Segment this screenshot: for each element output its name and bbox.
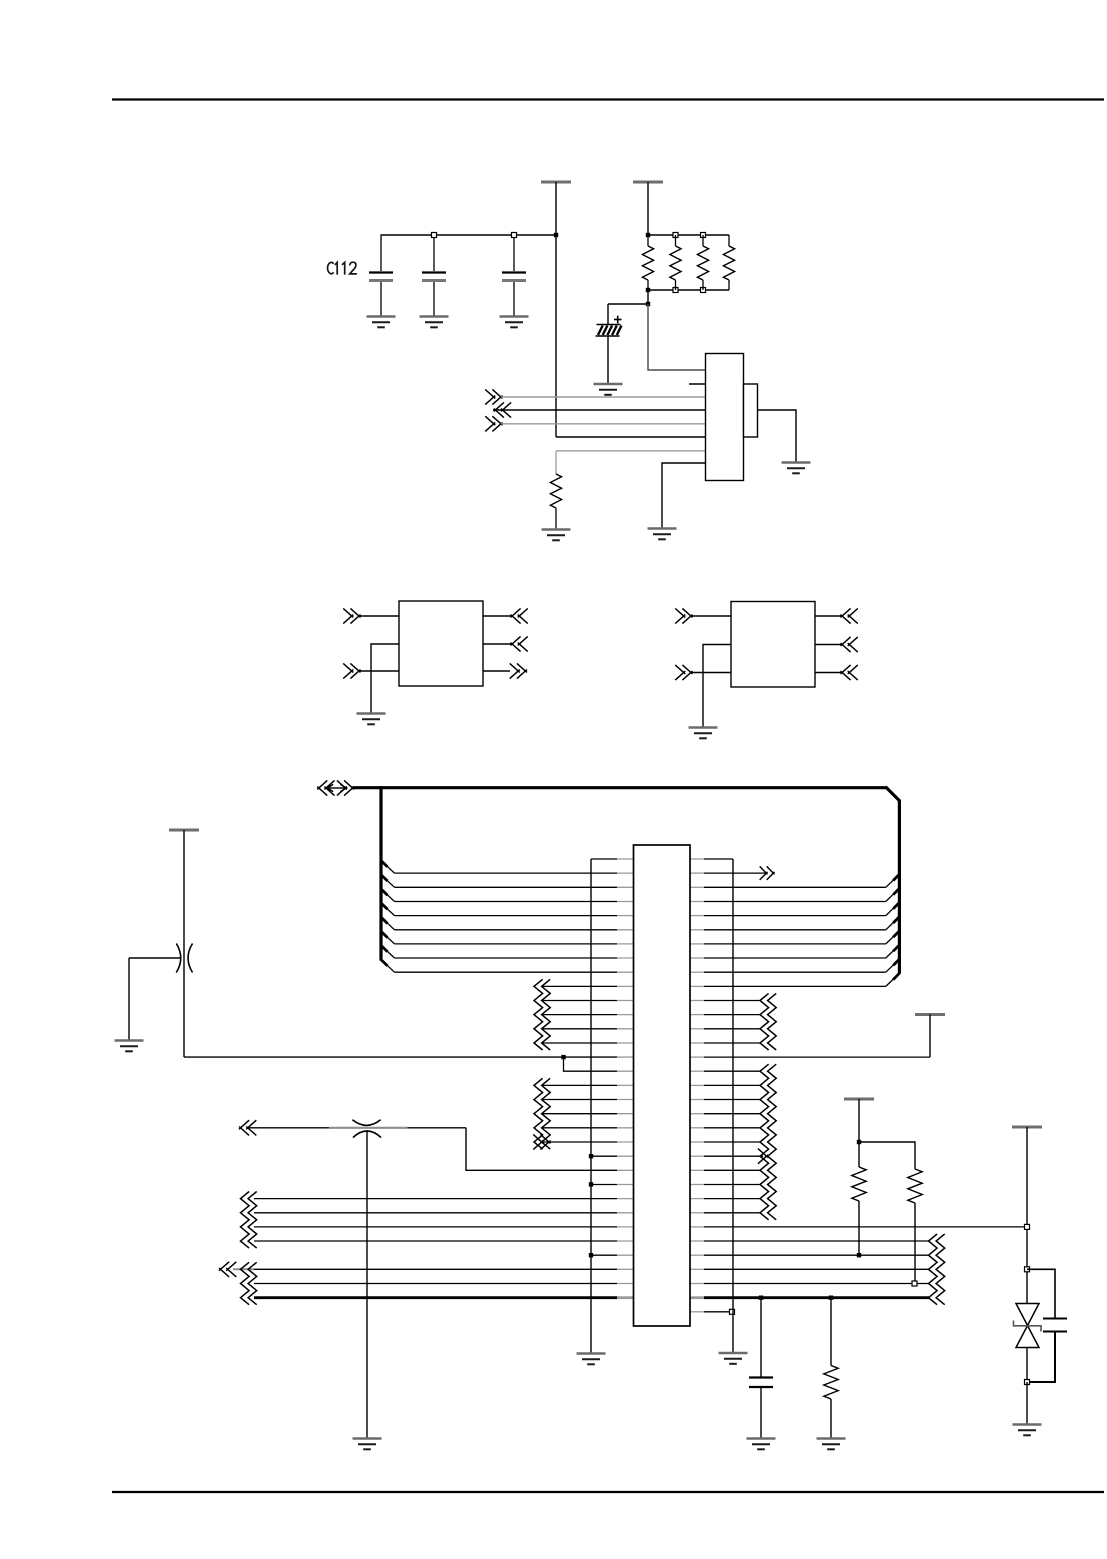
bus trunk right vertical bbox=[898, 800, 901, 974]
ground bbox=[115, 1041, 144, 1052]
bus merge diagonal R4 bbox=[886, 917, 900, 930]
resistor R1 bbox=[642, 235, 653, 290]
port chevron B1 bbox=[219, 1262, 236, 1277]
wire row21 right bbox=[690, 1155, 763, 1157]
wire bus bit 2 right bbox=[690, 886, 886, 888]
bus fan diagonal L1 bbox=[381, 861, 395, 874]
port chevron in 2 bbox=[485, 416, 502, 431]
wire row14 long left bbox=[184, 1056, 634, 1058]
spark gap G1 bbox=[176, 944, 192, 973]
power rail VCC2 bbox=[633, 181, 663, 184]
wire bus bit 3 right bbox=[690, 901, 886, 903]
spark gap G2 bbox=[352, 1120, 381, 1138]
wire row23 right bbox=[690, 1184, 761, 1186]
wire U3 out1 bbox=[815, 615, 842, 617]
ground bbox=[542, 530, 571, 541]
wire signal R1-4 right bbox=[690, 1042, 761, 1044]
ground bbox=[357, 714, 386, 725]
op-amp U1 bbox=[706, 354, 744, 481]
net stub marks A bbox=[241, 1192, 257, 1249]
port arrow L3-5 bbox=[533, 1134, 550, 1149]
wire signal A3 left bbox=[254, 1226, 634, 1228]
node row32 junction bbox=[730, 1309, 735, 1314]
net stub marks L3 bbox=[534, 1078, 550, 1149]
wire TVS bottom bbox=[1026, 1348, 1028, 1383]
net stub marks R2 bbox=[760, 1064, 776, 1220]
wire signal R1-3 right bbox=[690, 1028, 761, 1030]
wire tap left bbox=[608, 303, 648, 305]
wire signal L3-5 left bbox=[543, 1141, 634, 1143]
power rail left bbox=[169, 829, 199, 832]
wire signal L2-1 left bbox=[543, 985, 634, 987]
resistor R4 bbox=[723, 235, 734, 290]
wire row31 right thick bbox=[690, 1296, 930, 1299]
net stub marks B bbox=[241, 1262, 257, 1304]
node row26 to rail junction bbox=[1025, 1224, 1030, 1229]
power rail VCC4 bbox=[1012, 1126, 1042, 1129]
resistor R3 bbox=[697, 235, 708, 290]
ground bbox=[719, 1353, 748, 1364]
capacitor C2 bbox=[422, 237, 446, 316]
port chevron U2 out3 bbox=[510, 663, 527, 678]
wire signal A1 left bbox=[254, 1198, 634, 1200]
bus fan diagonal L3 bbox=[381, 889, 395, 902]
port chevron U3 out2 bbox=[841, 637, 858, 652]
port chevron U2 in2 bbox=[343, 663, 360, 678]
ground bbox=[747, 1439, 776, 1450]
wire U1 right to ground bbox=[758, 410, 797, 462]
ground bbox=[1013, 1425, 1042, 1436]
wire resistor net to U1 bbox=[648, 304, 705, 370]
wire row28 left bbox=[591, 1254, 634, 1256]
wire VCC4 down bbox=[1026, 1127, 1028, 1303]
wire right rail down bbox=[929, 1015, 931, 1058]
bus merge diagonal R2 bbox=[886, 888, 900, 901]
wire U2 in1 bbox=[359, 615, 399, 617]
bus trunk corner chamfer bbox=[886, 787, 901, 801]
wire U3 gnd pin bbox=[703, 645, 731, 728]
wire bus bit 9 right bbox=[690, 985, 886, 987]
ground bbox=[367, 317, 396, 328]
ground bbox=[817, 1439, 846, 1450]
wire bus bit 2 left bbox=[395, 886, 634, 888]
ground bbox=[689, 728, 718, 739]
microcontroller U4 bbox=[634, 845, 691, 1326]
wire R6 bottom bbox=[858, 1201, 860, 1255]
resistor R6 bbox=[852, 1167, 866, 1201]
wire U3 out3 bbox=[815, 672, 842, 674]
port chevron in 1 bbox=[485, 389, 502, 404]
ground bbox=[594, 384, 623, 395]
bus fan diagonal L4 bbox=[381, 903, 395, 916]
bus trunk top bbox=[353, 786, 887, 789]
node cap branch junction bbox=[1025, 1267, 1030, 1272]
wire signal L2-5 left bbox=[543, 1042, 634, 1044]
node R6 top junction bbox=[857, 1140, 861, 1144]
wire bus bit 8 right bbox=[690, 971, 886, 973]
wire row28 right bbox=[690, 1254, 930, 1256]
wire cap branch bbox=[1027, 1269, 1055, 1318]
wire R7 bottom bbox=[914, 1203, 916, 1284]
wire signal R1-2 right bbox=[690, 1014, 761, 1016]
node rail junction F bbox=[701, 288, 706, 293]
wire resistor bottom rail bbox=[648, 289, 729, 291]
wire bus bit 4 left bbox=[395, 915, 634, 917]
wire gap2 electrode down bbox=[366, 1131, 368, 1438]
port chevron U3 in1 bbox=[675, 608, 692, 623]
transceiver U3 bbox=[731, 602, 815, 688]
wire signal L3-2 left bbox=[543, 1099, 634, 1101]
wire C6 bottom bbox=[760, 1387, 762, 1438]
wire serial elbow bbox=[466, 1128, 634, 1171]
resistor R7 bbox=[908, 1169, 922, 1203]
port chevron U2 in1 bbox=[343, 608, 360, 623]
wire row15 right bbox=[690, 1070, 761, 1072]
wire rail to node bbox=[647, 290, 649, 304]
wire signal L3-4 left bbox=[543, 1127, 634, 1129]
node row28 junction bbox=[589, 1253, 593, 1257]
node row14 junction bbox=[561, 1055, 565, 1059]
wire bus bit 6 right bbox=[690, 943, 886, 945]
wire C6 top bbox=[760, 1298, 762, 1377]
port bus bidirectional chevron bbox=[317, 780, 354, 795]
wire bus bit 7 right bbox=[690, 957, 886, 959]
wire U2 gnd pin bbox=[371, 644, 399, 713]
node R6 bottom junction bbox=[857, 1253, 861, 1257]
bus fan diagonal L6 bbox=[381, 931, 395, 944]
wire signal A2 left bbox=[254, 1212, 634, 1214]
wire cap branch bottom bbox=[1027, 1332, 1055, 1382]
port chevron serial in bbox=[239, 1120, 256, 1135]
wire signal B3 left thick bbox=[254, 1296, 634, 1299]
port chevron U2 out2 bbox=[511, 636, 528, 651]
bottom border rule bbox=[112, 1491, 1104, 1493]
wire row15 elbow bbox=[564, 1057, 634, 1071]
node cap bus junction 2 bbox=[512, 233, 517, 238]
node rail junction B bbox=[673, 233, 678, 238]
ground bbox=[648, 529, 677, 540]
resistor R5 bbox=[550, 474, 561, 508]
capacitor C6 bbox=[749, 1378, 773, 1388]
wire U2 out3 bbox=[483, 670, 510, 672]
wire electrolytic to ground bbox=[607, 336, 609, 384]
wire row22 right bbox=[690, 1169, 761, 1171]
label plus sign bbox=[614, 316, 622, 324]
wire signal B2 left bbox=[254, 1283, 634, 1285]
bus merge diagonal R3 bbox=[886, 902, 900, 915]
wire row24 right bbox=[690, 1198, 761, 1200]
ground bbox=[420, 317, 449, 328]
node R7 bottom junction bbox=[912, 1281, 917, 1286]
wire bus bit 6 left bbox=[395, 943, 634, 945]
wire electrode down bbox=[128, 958, 130, 1040]
wire tap down bbox=[607, 304, 609, 324]
diode D1 TVS bbox=[1014, 1304, 1042, 1348]
wire bus bit 7 left bbox=[395, 957, 634, 959]
wire row27 right bbox=[690, 1240, 930, 1242]
port chevron U3 out3 bbox=[841, 665, 858, 680]
bus trunk left vertical bbox=[379, 786, 382, 960]
wire signal L3-3 left bbox=[543, 1113, 634, 1115]
power rail VCC1 bbox=[541, 181, 571, 184]
wire row25 right bbox=[690, 1212, 761, 1214]
ground bbox=[577, 1354, 606, 1365]
bus merge diagonal R5 bbox=[886, 931, 900, 944]
net stub marks R3 bbox=[929, 1234, 945, 1305]
bus merge diagonal R8 bbox=[886, 973, 900, 986]
resistor R2 bbox=[670, 235, 681, 290]
port chevron U3 out1 bbox=[841, 608, 858, 623]
wire signal A4 left bbox=[254, 1240, 634, 1242]
wire bus bit 1 left bbox=[395, 872, 634, 874]
wire R5 to ground bbox=[555, 508, 557, 529]
capacitor C3 bbox=[502, 237, 526, 316]
power rail right mid bbox=[915, 1013, 945, 1016]
wire U3 in2 bbox=[691, 672, 731, 674]
wire left side vertical bbox=[590, 859, 592, 1353]
top border rule bbox=[112, 98, 1104, 100]
wire signal L2-3 left bbox=[543, 1014, 634, 1016]
wire cap bus bbox=[381, 234, 557, 236]
node row21 junction bbox=[589, 1154, 593, 1158]
wire VCC1 down bbox=[555, 182, 557, 437]
port chevron out 1 bbox=[494, 402, 511, 417]
wire row21 left bbox=[591, 1155, 634, 1157]
ground bbox=[500, 317, 529, 328]
ground bbox=[353, 1439, 382, 1450]
wire row26 right bbox=[690, 1226, 1027, 1228]
wire U3 out2 bbox=[815, 644, 842, 646]
node rail junction C bbox=[701, 233, 706, 238]
power rail VCC3 bbox=[844, 1098, 874, 1101]
net stub marks R1 bbox=[760, 993, 776, 1050]
node electrolytic tap bbox=[646, 302, 650, 306]
wire row14 right bbox=[690, 1056, 930, 1058]
wire VCC2 down bbox=[647, 182, 649, 235]
port chevron U2 out1 bbox=[511, 608, 528, 623]
node pin stub bbox=[689, 383, 706, 385]
wire gray bus 1 bbox=[501, 396, 705, 398]
wire bus bit 4 right bbox=[690, 915, 886, 917]
wire signal R2-1 right bbox=[690, 1084, 761, 1086]
capacitor C5 bbox=[1043, 1319, 1067, 1332]
wire VCC3 down bbox=[858, 1099, 860, 1167]
op-amp U1 port box bbox=[744, 384, 758, 437]
wire signal R2-5 right bbox=[690, 1141, 761, 1143]
wire R8 top bbox=[830, 1298, 832, 1366]
wire U2 out1 bbox=[483, 615, 512, 617]
bus fan diagonal L8 bbox=[381, 960, 395, 973]
wire gray bus 2 bbox=[501, 423, 705, 425]
label C112 bbox=[328, 262, 357, 274]
wire serial line bbox=[247, 1127, 466, 1129]
wire U1 out bbox=[493, 409, 705, 411]
port chevron U3 in2 bbox=[675, 665, 692, 680]
wire row0 right bbox=[690, 858, 733, 860]
wire row32 right bbox=[690, 1311, 732, 1313]
wire U2 out2 bbox=[483, 643, 512, 645]
bus merge diagonal R7 bbox=[886, 959, 900, 972]
node rail junction A bbox=[646, 233, 650, 237]
ground bbox=[782, 463, 811, 474]
wire signal R2-3 right bbox=[690, 1113, 761, 1115]
capacitor C112 bbox=[369, 235, 393, 316]
wire bus3 down bbox=[555, 451, 557, 474]
wire row29 right bbox=[690, 1268, 930, 1270]
port chevron bus bit1 out bbox=[760, 866, 775, 880]
node cap bus junction 1 bbox=[432, 233, 437, 238]
wire B1 arrow line bbox=[233, 1268, 254, 1270]
wire U2 in2 bbox=[359, 670, 399, 672]
wire R7 top bbox=[859, 1142, 915, 1169]
wire gap electrode bbox=[129, 957, 180, 959]
node R8 junction bbox=[829, 1296, 833, 1300]
wire resistor top rail bbox=[648, 234, 729, 236]
wire row23 left bbox=[591, 1184, 634, 1186]
wire R8 bottom bbox=[830, 1399, 832, 1438]
wire TVS to ground bbox=[1026, 1382, 1028, 1424]
node C6 junction bbox=[759, 1296, 763, 1300]
node row23 junction bbox=[589, 1182, 593, 1186]
bus merge diagonal R1 bbox=[886, 874, 900, 887]
wire right side vertical bbox=[732, 859, 734, 1353]
wire signal R2-4 right bbox=[690, 1127, 761, 1129]
wire bus bit 5 right bbox=[690, 929, 886, 931]
bus fan diagonal L7 bbox=[381, 945, 395, 958]
wire signal B1 left bbox=[254, 1268, 634, 1270]
wire row30 right bbox=[690, 1283, 930, 1285]
wire signal R2-2 right bbox=[690, 1099, 761, 1101]
node TVS bottom junction bbox=[1025, 1380, 1030, 1385]
wire bus bit 5 left bbox=[395, 929, 634, 931]
bus fan diagonal L5 bbox=[381, 917, 395, 930]
wire gray bus 3 bbox=[556, 450, 705, 452]
capacitor C4 electrolytic bbox=[596, 325, 622, 337]
wire signal L3-1 left bbox=[543, 1084, 634, 1086]
wire VCC1 to U1 bbox=[556, 436, 705, 438]
bus fan diagonal L2 bbox=[381, 875, 395, 888]
transceiver U2 bbox=[399, 601, 483, 686]
node rail junction D bbox=[646, 288, 650, 292]
wire left rail down bbox=[183, 830, 185, 1057]
node bus-vertical junction bbox=[554, 233, 558, 237]
wire signal L2-4 left bbox=[543, 1028, 634, 1030]
wire U3 in1 bbox=[691, 615, 731, 617]
node rail junction E bbox=[673, 288, 678, 293]
wire signal L2-2 left bbox=[543, 1000, 634, 1002]
resistor R8 bbox=[824, 1366, 838, 1400]
port arrow row21 bbox=[758, 1149, 768, 1164]
wire bus bit 3 left bbox=[395, 901, 634, 903]
bus merge diagonal R6 bbox=[886, 945, 900, 958]
wire bus bit 1 right bbox=[690, 872, 766, 874]
wire bus bit 8 left bbox=[395, 971, 634, 973]
wire U1 bottom pin bbox=[662, 463, 705, 528]
net stub marks L2 bbox=[534, 979, 550, 1050]
wire signal R1-1 right bbox=[690, 1000, 761, 1002]
wire row0 left bbox=[591, 858, 634, 860]
